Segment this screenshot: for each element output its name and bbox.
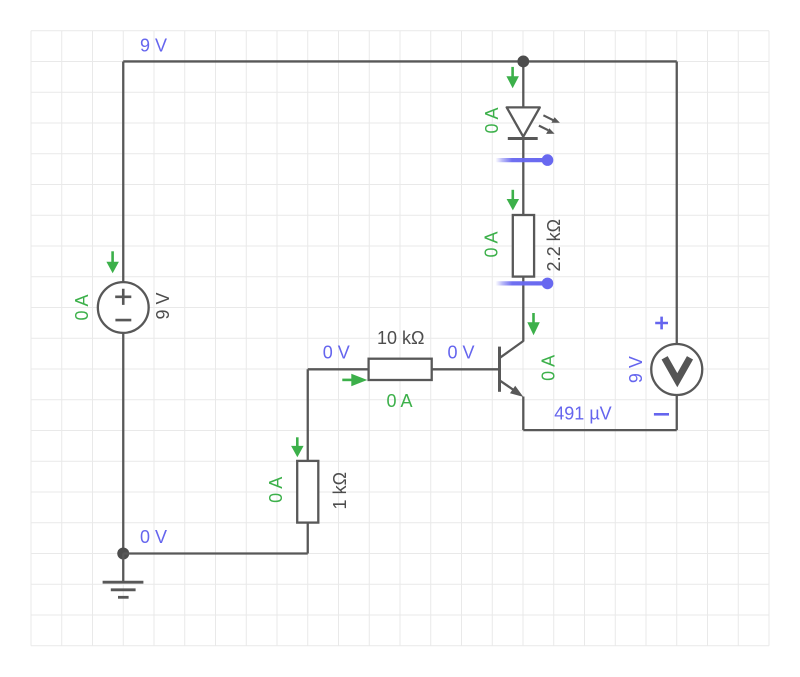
voltmeter M1: [651, 344, 702, 395]
svg-text:10 kΩ: 10 kΩ: [377, 328, 424, 348]
wire right rail from top node down to voltmeter plus: [676, 61, 678, 344]
current arrow 0 A into R3: [291, 437, 304, 457]
svg-text:0 V: 0 V: [140, 527, 167, 547]
current arrow 0 A into V1: [106, 251, 119, 273]
probe dot on node between LED and R1: [497, 154, 554, 166]
resistor R3 1 kOhm body: [297, 461, 318, 523]
probe dot on node between R1 and Q1 collector: [497, 278, 554, 290]
current arrow 0 A through R2: [342, 374, 367, 387]
svg-text:9 V: 9 V: [153, 292, 173, 319]
current arrow 0 A into R1: [507, 190, 519, 211]
svg-text:1 kΩ: 1 kΩ: [330, 472, 350, 509]
svg-text:0 A: 0 A: [539, 355, 559, 381]
wire emitter bottom rail: [523, 429, 676, 431]
current arrow 0 A into LED: [506, 67, 519, 88]
wire from rail up to R3 bottom: [307, 523, 309, 554]
polarity label plus of M1: [655, 317, 668, 330]
svg-text:0 V: 0 V: [447, 343, 474, 363]
current arrow 0 A into Q1 collector: [527, 313, 540, 335]
svg-text:0 A: 0 A: [266, 477, 286, 503]
svg-text:9 V: 9 V: [626, 356, 646, 383]
svg-text:491 µV: 491 µV: [554, 404, 611, 424]
svg-text:0 A: 0 A: [482, 107, 502, 133]
svg-text:0 V: 0 V: [323, 343, 350, 363]
voltage source V1 9 V: [98, 282, 149, 333]
polarity label minus of M1: [654, 413, 669, 416]
wire from Q1 emitter down to bottom rail: [522, 397, 524, 431]
ground symbol: [103, 554, 144, 598]
svg-text:0 A: 0 A: [386, 391, 412, 411]
transistor Q1 NPN: [500, 341, 524, 397]
wire from LED cathode down to R1 top: [522, 139, 524, 216]
LED D1: [507, 107, 560, 138]
svg-text:9 V: 9 V: [140, 36, 167, 56]
wire top rail from V1 to node at LED and voltmeter: [123, 60, 677, 62]
wire from corner right to R2 left lead: [308, 368, 369, 370]
wire from R2 right lead to Q1 base: [432, 368, 499, 370]
svg-text:2.2 kΩ: 2.2 kΩ: [544, 219, 564, 271]
junction top rail node: [517, 56, 529, 68]
resistor R2 10 kOhm body: [369, 359, 432, 380]
resistor R1 2.2 kOhm body: [513, 215, 534, 277]
svg-text:0 A: 0 A: [72, 294, 92, 320]
svg-text:0 A: 0 A: [482, 231, 502, 257]
wire from top rail node down to LED anode: [522, 61, 524, 107]
wire collector of Q1 up to R1 bottom: [522, 277, 524, 342]
wire bottom-left rail from ground node to R3 branch: [123, 552, 308, 554]
wire from R3 top up to base corner: [307, 369, 309, 461]
wire from voltmeter minus down to emitter rail: [676, 395, 678, 430]
wire from V1 minus terminal down to ground node: [122, 333, 124, 554]
wire left rail from top rail down to V1 plus terminal: [122, 61, 124, 282]
junction ground node: [117, 548, 129, 560]
